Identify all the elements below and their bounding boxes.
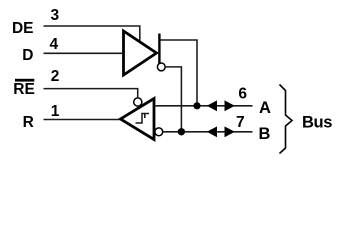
svg-text:DE: DE [12,20,34,37]
pin number 7 [236,114,245,131]
wire node A bus line [156,105,253,107]
driver inverting output bubble [157,63,165,71]
wire DE pin 3 [44,26,140,42]
svg-text:3: 3 [51,7,60,24]
wire node B bus line [163,131,252,133]
pin number 3 [51,7,60,24]
pin number 6 [238,86,247,103]
receiver hysteresis symbol [136,114,150,124]
pin number 4 [50,36,59,53]
bus brace [280,85,293,154]
svg-text:1: 1 [51,103,60,120]
pin number 1 [51,103,60,120]
label RE (active low) [13,79,35,98]
svg-text:R: R [23,114,34,131]
bidirectional arrow right on line A [225,100,235,111]
svg-text:D: D [22,47,33,64]
label A [259,99,271,117]
wire driver inverting output to node B [165,67,181,132]
label Bus [302,114,332,132]
svg-text:6: 6 [238,86,247,103]
wire D pin 4 [44,52,124,54]
svg-text:Bus: Bus [302,114,332,132]
wire R pin 1 [44,119,122,121]
svg-text:RE: RE [13,81,35,98]
label D [22,47,33,64]
label R [23,114,34,131]
pin number 2 [51,68,60,85]
svg-text:7: 7 [236,114,245,131]
bidirectional arrow right on line B [225,126,235,137]
svg-text:B: B [259,125,271,143]
wire driver noninverting output to node A [161,40,198,106]
junction dot node A [193,102,200,109]
svg-text:A: A [259,99,271,117]
label B [259,125,271,143]
svg-text:4: 4 [50,36,59,53]
receiver enable bubble [134,98,142,106]
driver U1 triangle [124,31,157,75]
receiver U2 triangle [121,99,155,140]
wire RE pin 2 [44,89,138,98]
bidirectional arrow left on line B [207,126,217,137]
bidirectional arrow left on line A [207,100,217,111]
driver output bar [158,34,160,64]
label DE [12,20,34,37]
receiver inverting input bubble [155,128,163,136]
junction dot node B [178,128,185,135]
svg-text:2: 2 [51,68,60,85]
